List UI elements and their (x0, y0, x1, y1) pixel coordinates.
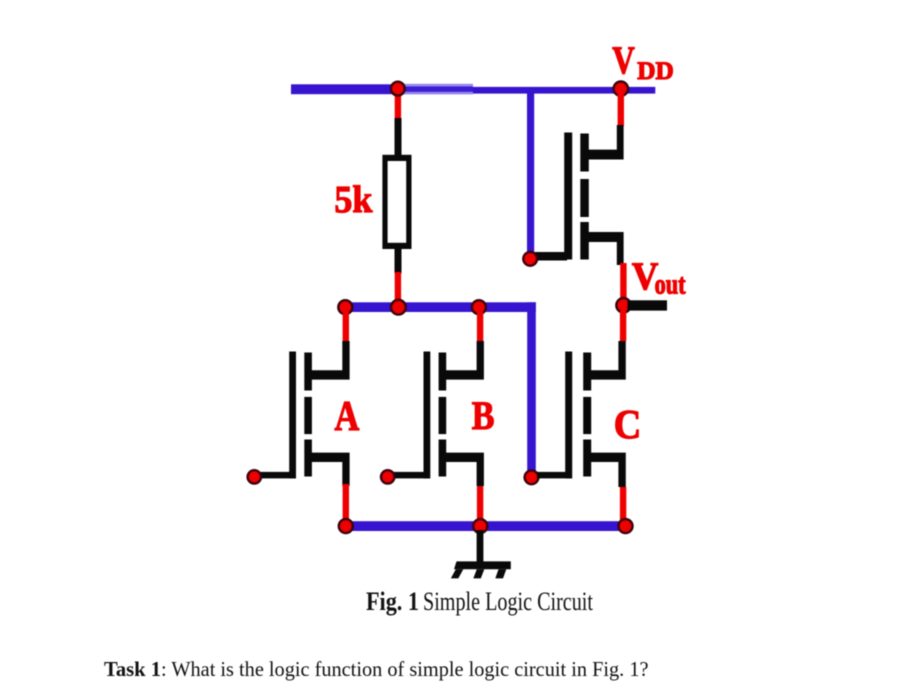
wire B drain red (477, 312, 483, 342)
node VDD-load junction (614, 82, 628, 96)
svg-text:A: A (335, 394, 360, 440)
transistor Q4 C (537, 341, 626, 487)
node bottom rail / A source (339, 519, 353, 533)
node VDD-resistor junction (391, 82, 405, 96)
svg-text:5k: 5k (334, 179, 373, 221)
node load gate (523, 252, 537, 266)
svg-text:V: V (612, 39, 635, 82)
transistor Q1 load (top right) (534, 125, 624, 265)
node Vout (616, 298, 630, 312)
wire C drain red (from Vout) (620, 311, 626, 341)
svg-text:Fig. 1: Fig. 1 (366, 587, 419, 616)
svg-text:Simple Logic Circuit: Simple Logic Circuit (423, 587, 594, 616)
wire bottom rail (blue) (341, 521, 629, 531)
caption Fig. 1 Simple Logic Circuit (366, 587, 594, 616)
wire A drain red (343, 312, 349, 342)
transistor Q2 A (255, 341, 350, 486)
wire ground lead (black) (477, 530, 484, 569)
wire A source red (343, 484, 349, 522)
node bottom rail / B source (ground tap) (473, 519, 487, 533)
transistor Q3 B (389, 341, 484, 486)
wire middle rail (blue) with corner down to C gate (343, 302, 535, 477)
wire VDD top rail (blue) (291, 84, 655, 95)
ground symbol (451, 561, 511, 578)
wire Vout output stub (black) (628, 300, 668, 310)
svg-text:Task 1: Task 1 (104, 657, 161, 681)
wire C source red (620, 487, 626, 522)
svg-text:C: C (614, 401, 642, 447)
svg-text:: What is the logic function o: : What is the logic function of simple l… (161, 657, 649, 681)
svg-text:DD: DD (637, 58, 674, 85)
wire resistor bottom red (395, 272, 401, 304)
label VDD (612, 39, 674, 85)
node A gate terminal (248, 470, 261, 483)
resistor R1 (5k) (382, 118, 411, 274)
svg-text:B: B (472, 393, 495, 438)
label Vout (632, 255, 686, 301)
wire load source red to Vout (620, 263, 626, 300)
node middle rail / B drain (472, 300, 486, 314)
wire blue gate feed from VDD rail down to load gate (527, 92, 534, 259)
wire resistor top red (395, 95, 401, 121)
wire load drain red (from VDD) (618, 94, 624, 126)
node middle rail / resistor bottom (391, 300, 406, 315)
wire B source red (477, 486, 483, 522)
node middle rail / A drain (338, 300, 352, 314)
svg-text:out: out (655, 270, 687, 301)
node B gate terminal (381, 470, 394, 483)
node C gate (blue drop) (525, 470, 539, 484)
node bottom rail / C source (619, 519, 633, 533)
task text (104, 657, 649, 681)
